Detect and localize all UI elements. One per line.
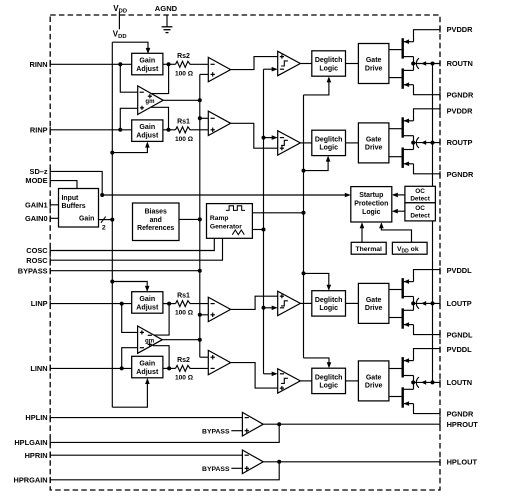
wire LINP input	[50, 303, 132, 305]
wire HP-R output to HPLOUT	[263, 461, 440, 463]
wire GD3 gate drives	[389, 289, 403, 291]
wire GA-L1 output	[163, 303, 176, 305]
wire HPLIN input	[50, 417, 242, 419]
svg-text:PGNDR: PGNDR	[447, 90, 474, 99]
arrow into D4 top	[327, 362, 332, 368]
wire GA-L2 feedback to gm2	[153, 346, 169, 369]
gate-drive block GD1	[358, 44, 389, 84]
wire VDD feed to Gain Adjust R1 (top)	[112, 42, 148, 52]
svg-text:Deglitch: Deglitch	[315, 297, 343, 304]
svg-text:Adjust: Adjust	[136, 303, 159, 311]
node CM/U2 - input	[198, 116, 202, 120]
wire OC2 to startup	[394, 210, 405, 212]
svg-text:LOUTN: LOUTN	[447, 378, 472, 387]
svg-text:Deglitch: Deglitch	[315, 57, 343, 64]
wire vdd-ok to startup	[381, 224, 411, 242]
op-amp HP-R	[242, 450, 263, 474]
wire HP-L output to HPROUT	[263, 423, 440, 425]
svg-text:GAIN1: GAIN1	[25, 200, 48, 209]
gain-adjust block L2	[132, 356, 163, 378]
comparator C2 (ROUTP pwm)	[278, 131, 301, 155]
wire VDD pin stub	[118, 12, 120, 30]
wire GAIN0 input	[50, 217, 58, 219]
svg-text:PVDDR: PVDDR	[447, 107, 474, 116]
thermal block	[351, 242, 386, 254]
svg-text:ROUTP: ROUTP	[447, 138, 473, 147]
op-amp U2 (RINP integrator)	[208, 111, 230, 135]
svg-text:LINP: LINP	[31, 299, 48, 308]
transistor pair Q5/Q6 (LOUTP half-bridge)	[402, 278, 404, 298]
svg-text:100 Ω: 100 Ω	[175, 375, 194, 382]
svg-text:Gate: Gate	[366, 374, 382, 381]
wire ramp to comparator C3	[264, 307, 273, 309]
wire deglitch to GD4	[346, 380, 359, 382]
wire HPRGAIN feedback	[50, 462, 279, 480]
input-buffers block	[59, 189, 99, 228]
deglitch-logic block D1	[312, 51, 346, 76]
svg-text:Logic: Logic	[319, 383, 338, 390]
wire RINN input	[50, 63, 132, 65]
svg-text:Rs1: Rs1	[177, 292, 190, 299]
svg-text:HPRIN: HPRIN	[25, 451, 48, 460]
node CM/gm2 output	[198, 338, 202, 342]
arrow ramp into C3	[272, 306, 278, 311]
svg-text:Rs2: Rs2	[177, 357, 190, 364]
svg-text:OC: OC	[415, 205, 425, 212]
node GA-R1 feedback tap	[167, 62, 171, 66]
wire GA-R1 output	[163, 63, 176, 65]
bus-width slash + 2	[101, 217, 106, 223]
svg-text:ROUTN: ROUTN	[447, 59, 473, 68]
svg-text:AGND: AGND	[155, 4, 178, 13]
wire biases to CM rail	[179, 218, 200, 220]
svg-text:HPLOUT: HPLOUT	[447, 457, 478, 466]
wire COSC input	[50, 238, 214, 250]
svg-text:PGNDR: PGNDR	[447, 170, 474, 179]
wire U1 output to comparator C1	[231, 57, 278, 70]
svg-text:Logic: Logic	[319, 145, 338, 152]
wire HPRIN input	[50, 454, 242, 456]
wire GAIN1 input	[50, 204, 58, 206]
op-amp U1 (RINN integrator)	[208, 57, 230, 81]
svg-text:HPLGAIN: HPLGAIN	[14, 438, 47, 447]
node GA-L1 feedback tap	[167, 302, 171, 306]
comparator C1 (ROUTN pwm)	[278, 51, 301, 75]
wire ROSC input	[50, 238, 222, 260]
wire deglitch rail to D3	[304, 273, 329, 288]
wire ramp triangle output	[252, 229, 263, 231]
wire LINN input	[50, 367, 132, 369]
wire deglitch rail to D1	[304, 78, 329, 95]
svg-text:Biases: Biases	[145, 208, 167, 215]
wire GD2 gate drives	[389, 128, 403, 130]
wire RINP to gm1 non-inverting input	[120, 108, 137, 130]
svg-text:BYPASS: BYPASS	[18, 266, 48, 275]
svg-text:PVDDL: PVDDL	[447, 266, 473, 275]
deglitch-logic block D4	[312, 368, 346, 393]
svg-text:References: References	[137, 225, 174, 232]
gate-drive block GD3	[358, 283, 389, 323]
svg-text:gm: gm	[145, 337, 155, 344]
node HP-R feedback	[277, 460, 281, 464]
wire LINN to gm2 - input	[122, 348, 138, 369]
node RINP branch	[118, 128, 122, 132]
wire GA-L1 feedback to gm2	[153, 304, 169, 336]
deglitch-logic block D2	[312, 130, 346, 155]
oc-detect block 2	[405, 203, 436, 221]
wire ramp to comparator C4	[264, 373, 273, 375]
wire branch to Gain Adjust L1	[112, 282, 147, 291]
svg-text:OC: OC	[415, 188, 425, 195]
svg-text:100 Ω: 100 Ω	[175, 70, 194, 77]
node LINN branch	[120, 366, 124, 370]
wire deglitch to GD3	[346, 302, 359, 304]
biases-references block	[133, 203, 180, 241]
svg-text:RINP: RINP	[30, 125, 48, 134]
transistor pair Q3/Q4 (ROUTP half-bridge)	[402, 117, 404, 137]
wire LINP to gm2 + input	[122, 304, 138, 333]
svg-text:Thermal: Thermal	[355, 246, 382, 253]
wire thermal to startup	[361, 224, 363, 242]
svg-text:PGNDR: PGNDR	[447, 409, 474, 418]
wire gm1 output	[163, 99, 200, 101]
op-amp gm1 (right channel buffer)	[138, 86, 164, 115]
svg-text:Drive: Drive	[365, 305, 383, 312]
arrow into Gain Adjust L2 bottom	[145, 378, 150, 384]
svg-text:Gain: Gain	[79, 216, 94, 223]
resistor Rs1 (RINP)	[176, 127, 192, 133]
svg-text:Rs1: Rs1	[177, 119, 190, 126]
svg-text:Logic: Logic	[319, 305, 338, 312]
gate-drive block GD2	[358, 123, 389, 163]
node SD-z corner	[100, 193, 104, 197]
svg-text:Gain: Gain	[139, 360, 155, 368]
svg-text:Gain: Gain	[139, 123, 155, 131]
wire gm2 output	[162, 339, 200, 341]
node bus/GA-L1 branch	[110, 280, 114, 284]
wire C2 to deglitch D2	[300, 142, 312, 144]
arrow ramp into C1	[272, 67, 278, 72]
svg-text:PVDDL: PVDDL	[447, 345, 473, 354]
node HP-L feedback	[277, 422, 281, 426]
wire ramp to comparator C1	[264, 68, 273, 70]
arrow into D3 top	[327, 285, 332, 291]
wire deglitch rail to D4	[304, 358, 330, 366]
node CM/bypass pin	[198, 269, 202, 273]
resistor Rs2 (RINN)	[176, 61, 192, 67]
svg-text:Drive: Drive	[365, 145, 383, 152]
wire BYPASS input	[50, 270, 200, 272]
node bus/GA-R2 branch	[110, 151, 114, 155]
wire U4 output to comparator C4	[231, 363, 278, 389]
arrow into Gain Adjust R2 bottom	[145, 142, 150, 148]
node CM/biases	[198, 217, 202, 221]
wire GD1 gate drives	[389, 49, 403, 51]
node GA-L2 feedback tap	[167, 366, 171, 370]
node CM/U3 + input	[198, 313, 202, 317]
wire SD-z to startup logic	[50, 171, 349, 195]
deglitch-logic block D3	[312, 291, 346, 316]
svg-text:COSC: COSC	[26, 246, 48, 255]
svg-text:Protection: Protection	[354, 201, 388, 208]
svg-text:Adjust: Adjust	[136, 368, 159, 376]
node deglitch rail/D3	[302, 271, 306, 275]
arrow into Gain Adjust L1 top	[145, 286, 150, 292]
svg-text:HPRGAIN: HPRGAIN	[14, 475, 48, 484]
wire OC sense rail upper (ROUTN/ROUTP)	[432, 64, 434, 187]
wire Rs2 to U1 inverting input	[192, 63, 209, 65]
svg-text:Buffers: Buffers	[62, 203, 86, 210]
wire branch to Gain Adjust R2	[112, 143, 147, 152]
wire U3 output to comparator C3	[231, 296, 278, 309]
wire OC1 to startup	[394, 194, 405, 196]
wire CM rail to U2 - input	[200, 117, 209, 119]
node deglitch rail/D2	[302, 169, 306, 173]
wire ramp clock output	[252, 212, 303, 214]
arrow SD line into startup	[345, 193, 351, 198]
wire ramp rail vertical	[263, 69, 265, 374]
wire OC sense rail lower (LOUTP/LOUTN)	[432, 221, 434, 383]
svg-text:Generator: Generator	[210, 223, 242, 230]
arrow into D2 bottom	[326, 156, 331, 162]
IC boundary dashed border	[50, 15, 440, 490]
wire branch to Gain Adjust L2	[112, 380, 147, 408]
svg-text:HPROUT: HPROUT	[447, 420, 479, 429]
svg-text:Adjust: Adjust	[136, 132, 159, 140]
wire Rs2 to U4 inverting input	[192, 367, 209, 369]
wire C1 to deglitch D1	[300, 63, 312, 65]
wire RINN to gm1 inverting input	[120, 64, 137, 92]
svg-text:2: 2	[102, 225, 106, 232]
gate-drive block GD4	[358, 361, 389, 401]
wire GA-R1 feedback to gm1	[151, 64, 169, 93]
gain-adjust block R1	[132, 53, 163, 75]
wire Rs1 to U2 non-inverting input	[192, 129, 209, 131]
wire C4 to deglitch D4	[300, 380, 312, 382]
svg-text:Gate: Gate	[366, 136, 382, 143]
arrow into D1 bottom	[327, 76, 332, 82]
svg-text:gm: gm	[145, 98, 155, 105]
node ramp/ramp-generator output	[262, 228, 266, 232]
wire deglitch to GD1	[346, 63, 359, 65]
node deglitch rail/ramp clock	[302, 211, 306, 215]
svg-text:Adjust: Adjust	[136, 65, 159, 73]
wire VDD/gain bus vertical rail	[111, 42, 113, 407]
wire Rs1 to U3 inverting input	[192, 303, 209, 305]
node ramp/C3	[262, 306, 266, 310]
svg-text:Drive: Drive	[365, 383, 383, 390]
svg-text:LOUTP: LOUTP	[447, 299, 472, 308]
svg-text:RINN: RINN	[30, 60, 48, 69]
node RINN branch	[118, 62, 122, 66]
resistor Rs2 (LINN)	[176, 365, 192, 371]
wire GA-R2 output	[163, 129, 176, 131]
node ramp/C2	[262, 136, 266, 140]
wire RINP input	[50, 129, 132, 131]
op-amp U3 (LINP integrator)	[208, 297, 230, 321]
svg-text:Deglitch: Deglitch	[315, 374, 343, 381]
wire common-mode rail (BYPASS node)	[199, 74, 201, 357]
svg-text:MODE: MODE	[25, 176, 47, 185]
wire GA-L2 output	[163, 367, 176, 369]
wire C3 to deglitch D3	[300, 302, 312, 304]
svg-text:100 Ω: 100 Ω	[175, 310, 194, 317]
wire gain bus (2-bit)	[99, 219, 113, 221]
ramp-generator block	[207, 204, 253, 239]
op-amp U4 (LINN integrator)	[208, 350, 230, 374]
node CM/gm1 output	[198, 98, 202, 102]
op-amp HP-L	[242, 412, 263, 436]
node GA-R2 feedback tap	[167, 128, 171, 132]
wire U2 output to comparator C2	[231, 123, 278, 148]
startup-protection-logic block	[351, 187, 392, 222]
svg-text:and: and	[150, 217, 162, 224]
gain-adjust block L1	[132, 292, 163, 314]
svg-text:Gain: Gain	[139, 57, 155, 65]
svg-text:Ramp: Ramp	[210, 215, 229, 222]
svg-text:Logic: Logic	[362, 209, 381, 216]
svg-text:BYPASS: BYPASS	[202, 429, 230, 436]
svg-text:Input: Input	[62, 195, 80, 202]
wire deglitch rail to D2	[304, 157, 329, 170]
svg-text:100 Ω: 100 Ω	[175, 136, 194, 143]
node bus/gain-bus junction	[110, 218, 114, 222]
op-amp gm2 (left channel buffer)	[138, 326, 163, 353]
svg-text:PGNDL: PGNDL	[447, 331, 473, 340]
svg-text:Gate: Gate	[366, 57, 382, 64]
svg-text:ROSC: ROSC	[26, 256, 48, 265]
arrow ramp into C2	[272, 135, 278, 140]
wire MODE input	[50, 181, 77, 189]
comparator C4 (LOUTN pwm)	[278, 369, 301, 393]
oc-detect block 1	[405, 186, 436, 203]
svg-text:BYPASS: BYPASS	[202, 466, 230, 473]
svg-text:Gate: Gate	[366, 297, 382, 304]
transistor pair Q7/Q8 (LOUTN half-bridge)	[402, 357, 404, 377]
svg-text:Startup: Startup	[359, 192, 383, 199]
wire deglitch to GD2	[346, 142, 359, 144]
wire HPLGAIN feedback	[50, 424, 279, 442]
ground AGND symbol	[166, 15, 168, 27]
svg-text:PVDDR: PVDDR	[447, 25, 474, 34]
wire GA-R2 feedback to gm1	[151, 107, 168, 130]
gain-adjust block R2	[132, 120, 163, 141]
arrow into Gain Adjust R1 top	[146, 48, 151, 54]
svg-text:Deglitch: Deglitch	[315, 136, 343, 143]
svg-text:HPLIN: HPLIN	[25, 413, 47, 422]
wire deglitch rail vertical	[303, 95, 305, 358]
svg-text:Drive: Drive	[365, 65, 383, 72]
svg-text:Gain: Gain	[139, 295, 155, 303]
comparator C3 (LOUTP pwm)	[278, 291, 301, 315]
arrow ramp into C4	[272, 372, 278, 377]
svg-text:SD–z: SD–z	[30, 167, 48, 176]
wire ramp to comparator C2	[264, 137, 273, 139]
svg-text:Logic: Logic	[319, 65, 338, 72]
vdd-ok block	[392, 242, 427, 254]
svg-text:Detect: Detect	[410, 213, 430, 220]
wire GD4 gate drives	[389, 368, 403, 370]
svg-text:Rs2: Rs2	[177, 53, 190, 60]
svg-text:GAIN0: GAIN0	[25, 214, 48, 223]
wire CM rail to U4 + input	[200, 356, 209, 358]
wire CM rail to U1 + input	[200, 73, 209, 75]
node LINP branch	[120, 302, 124, 306]
transistor pair Q1/Q2 (ROUTN half-bridge)	[402, 38, 404, 58]
svg-text:LINN: LINN	[30, 364, 47, 373]
resistor Rs1 (LINP)	[176, 301, 192, 307]
wire CM rail to U3 + input	[200, 314, 209, 316]
svg-text:Detect: Detect	[410, 195, 430, 202]
